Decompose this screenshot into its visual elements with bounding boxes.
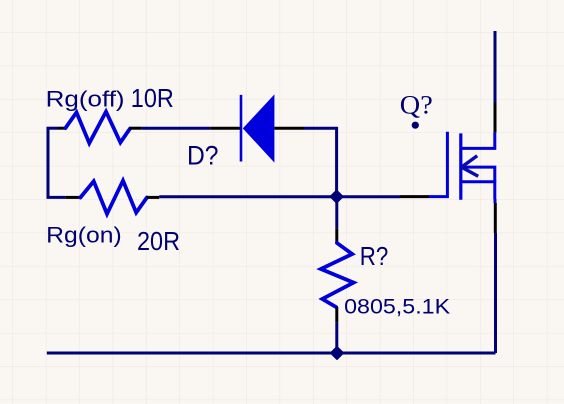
svg-text:R?: R? — [360, 241, 389, 271]
transistor Q? source pin (black) — [494, 203, 497, 233]
diode D1 anode-side pin (left, black) — [210, 127, 240, 130]
junction dot at bottom rail — [331, 347, 343, 359]
svg-text:Rg(on): Rg(on) — [46, 222, 122, 247]
svg-text:Rg(off): Rg(off) — [46, 86, 125, 111]
transistor Q? channel bar — [459, 133, 462, 199]
wire: bottom rail — [47, 352, 496, 355]
designator anchor dot under Q? — [412, 122, 419, 129]
transistor Q? arrow barb upper — [462, 156, 478, 167]
resistor R_g(off) zigzag body — [65, 112, 130, 144]
resistor R_g(on) zigzag body — [80, 181, 146, 214]
transistor Q? source lead blue-to-black joint — [494, 199, 497, 203]
wire: drain pin up to top — [494, 31, 497, 103]
resistor R_g(on) left pin stub — [65, 196, 80, 199]
junction dot at gate node — [330, 190, 342, 202]
diode D? anode pin (right, black) — [274, 127, 304, 130]
wire: bottom branch corner to Rg(on) — [47, 196, 66, 199]
resistor R? zigzag body (vertical) — [321, 243, 354, 307]
transistor Q? drain stub and lead — [461, 132, 495, 148]
transistor Q? gate pin (black) — [400, 195, 429, 198]
resistor R? top pin stub — [335, 228, 338, 243]
wire: R? to bottom rail — [335, 322, 338, 353]
wire: junction down to R? — [335, 197, 338, 229]
wire: Rg(on) to gate pin (through junction) — [159, 195, 400, 198]
svg-text:Q?: Q? — [400, 91, 433, 120]
wire: diode to corner, then down to junction — [304, 128, 337, 196]
resistor R_g(on) right pin stub — [147, 196, 159, 199]
svg-text:20R: 20R — [137, 226, 180, 256]
resistor R? bottom pin stub — [335, 307, 338, 322]
diode D? cathode bar — [240, 95, 243, 162]
wire: rail up to MOSFET source pin — [494, 233, 497, 353]
svg-text:10R: 10R — [131, 83, 174, 113]
wire: Rg(off) to diode — [142, 127, 211, 130]
resistor R_g(off) right pin stub — [129, 127, 141, 130]
transistor Q? source stub and lead — [461, 182, 495, 199]
diode D? triangle (pointing left) — [243, 94, 275, 162]
svg-text:D?: D? — [187, 140, 219, 170]
transistor Q? gate lead stub (blue) — [429, 132, 447, 197]
resistor R_g(off) left pin stub — [58, 127, 66, 130]
transistor Q? bulk line with arrow shaft — [463, 167, 495, 182]
transistor Q? arrow barb lower — [462, 167, 479, 176]
transistor Q? drain pin (black) — [494, 103, 497, 133]
wire: top branch, corner to Rg(off) left pin — [47, 127, 59, 130]
wire: left vertical bus joining Rg(off) and Rg(on) — [47, 128, 50, 197]
svg-text:0805,5.1K: 0805,5.1K — [344, 295, 450, 318]
